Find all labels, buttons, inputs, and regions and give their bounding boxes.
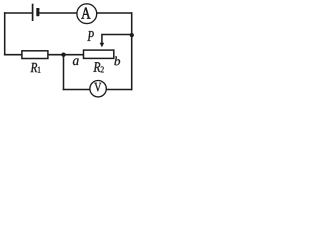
terminal b label xyxy=(114,57,120,66)
wire battery to ammeter xyxy=(40,12,77,14)
rheostat slider P arrowhead xyxy=(100,43,105,47)
wire left rail xyxy=(4,13,6,55)
terminal a label xyxy=(73,58,79,65)
wire ammeter to top-right corner xyxy=(97,12,132,14)
wire bottom left to voltmeter xyxy=(64,89,91,91)
wire voltmeter to bottom-right corner xyxy=(106,89,131,91)
voltmeter V circle xyxy=(90,81,106,97)
rheostat R2 box xyxy=(84,50,114,58)
wire right rail xyxy=(131,13,133,90)
ammeter letter A xyxy=(81,8,90,19)
battery B1 long plate (+) xyxy=(32,4,34,21)
wire slider tap to right rail xyxy=(102,35,132,44)
label P xyxy=(87,31,93,41)
ammeter A circle xyxy=(77,4,97,24)
wire top-left: battery to left corner xyxy=(5,12,33,14)
node junction dot between R1, R2 terminal a and voltmeter branch xyxy=(61,53,65,57)
label R1 xyxy=(31,63,38,72)
wire R1 to node and R2 terminal a xyxy=(48,54,84,56)
battery B1 short thick plate (-) xyxy=(36,8,39,16)
node junction dot of slider tap on right rail xyxy=(130,33,134,37)
voltmeter letter V xyxy=(94,83,101,92)
resistor R1 box xyxy=(22,51,48,59)
wire lead into R1 xyxy=(5,54,22,56)
label R2 xyxy=(93,62,100,71)
wire riser from node down to voltmeter line xyxy=(63,55,65,90)
